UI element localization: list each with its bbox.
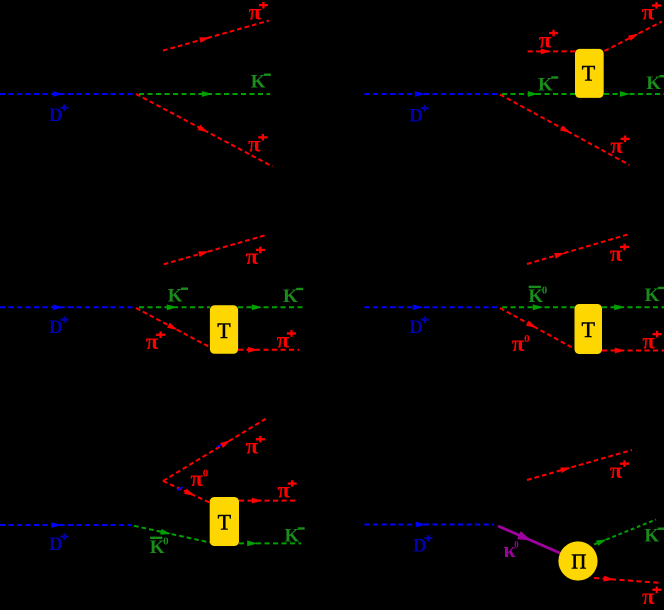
svg-text:π: π — [246, 244, 259, 269]
svg-text:π: π — [246, 433, 259, 458]
svg-text:0: 0 — [514, 540, 519, 550]
svg-text:π: π — [610, 133, 623, 158]
svg-text:T: T — [582, 61, 596, 86]
svg-text:π: π — [610, 241, 623, 266]
svg-text:π: π — [642, 0, 655, 25]
svg-text:π: π — [642, 584, 655, 609]
svg-text:π: π — [277, 478, 290, 503]
svg-text:K: K — [285, 526, 300, 547]
svg-text:π: π — [190, 466, 203, 491]
svg-text:0: 0 — [542, 285, 548, 297]
svg-text:T: T — [582, 317, 596, 342]
svg-text:T: T — [218, 510, 232, 535]
svg-text:π: π — [642, 328, 655, 353]
svg-text:π: π — [146, 329, 159, 354]
svg-text:K: K — [538, 75, 553, 96]
svg-text:K: K — [644, 526, 659, 547]
svg-text:0: 0 — [524, 333, 530, 345]
svg-text:K: K — [646, 73, 661, 94]
svg-text:π: π — [277, 328, 290, 353]
svg-text:Π: Π — [571, 549, 586, 573]
svg-text:0: 0 — [203, 468, 209, 480]
svg-text:K: K — [645, 285, 660, 306]
svg-text:π: π — [249, 0, 262, 24]
svg-text:π: π — [539, 27, 552, 52]
svg-text:π: π — [512, 331, 525, 356]
svg-text:π: π — [610, 458, 623, 483]
svg-text:K: K — [251, 72, 266, 93]
svg-text:K: K — [168, 286, 183, 307]
svg-text:K: K — [283, 286, 298, 307]
svg-text:T: T — [217, 318, 231, 343]
svg-text:0: 0 — [163, 536, 169, 548]
svg-text:π: π — [248, 132, 261, 157]
